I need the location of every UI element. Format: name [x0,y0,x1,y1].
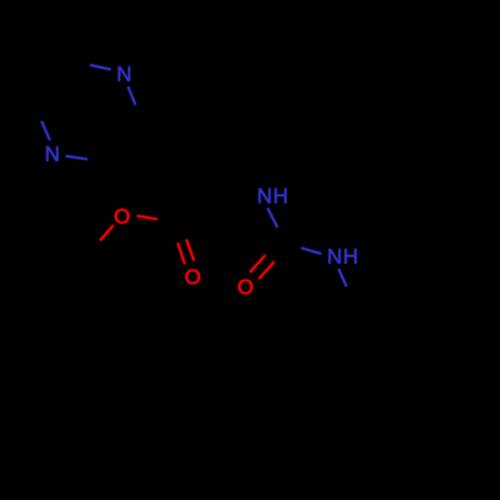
wire: bond C5-N4 (blue half) [42,121,51,141]
wire: bond N1-C2 (blue half) [128,87,136,106]
wire: bond N4-C3 (blue half) [66,156,88,159]
svg-text:NH: NH [257,185,289,208]
wire: urea C=O double bond line 1 (red half) [250,255,266,272]
wire: bond N(H)-C urea (blue half) [268,208,278,228]
wire: ester C=O double bond line 1 (red half) [178,243,185,264]
wire: urea C=O double bond line 2 (red half) [259,262,275,279]
svg-text:O: O [114,205,131,228]
wire: bond N(H)2-cyclohexyl C (blue half) [339,269,347,287]
svg-text:O: O [237,276,254,299]
wire: bond CH2-O1 ester (red half) [100,225,114,241]
svg-text:N: N [117,63,133,86]
wire: bond C urea-N(H)2 (blue half) [301,248,322,254]
svg-text:NH: NH [327,245,359,268]
wire: ester C=O double bond line 2 (red half) [186,239,194,260]
svg-text:O: O [185,266,202,289]
wire: bond C6-N1 (blue half) [90,65,111,70]
svg-text:N: N [45,143,61,166]
wire: bond O1-C(=O) ester (red half) [137,216,157,220]
